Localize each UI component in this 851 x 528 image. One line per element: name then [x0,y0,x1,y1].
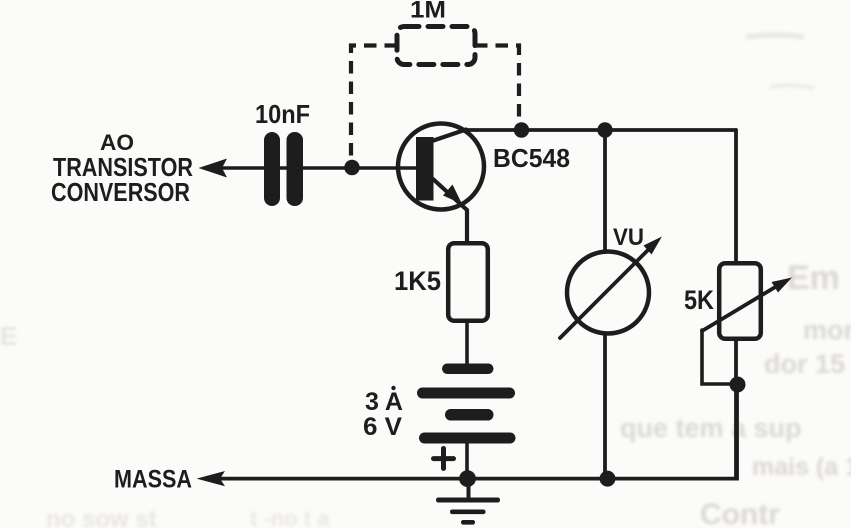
transistor Q1 collector lead [432,130,466,142]
wire: dashed right link from 1M to collector rail [475,46,519,125]
battery B1 plate 4 (long) [419,433,516,444]
wire: VU to bottom rail [603,333,607,478]
node A: base junction [344,160,359,175]
svg-text:Contr: Contr [700,498,780,528]
wire: 1K5 to battery [465,321,469,364]
wire: wiper jog to bottom terminal [702,330,736,384]
node F: pot bottom junction [730,377,746,393]
battery B1 plate 1 (short) [442,364,494,375]
svg-text:1M: 1M [410,0,446,24]
potentiometer R3 5K (body) [719,263,761,339]
wire: pot bottom to rail [734,339,738,478]
svg-text:10nF: 10nF [255,99,310,129]
node E: VU bottom junction [600,471,616,487]
svg-text:MASSA: MASSA [114,466,192,494]
transistor Q1 base bar [416,137,434,201]
ground stub [467,478,471,497]
meter M1 needle line [560,248,650,338]
transistor Q1 emitter lead [433,179,467,243]
svg-text:Em: Em [787,259,840,297]
wire: VU branch down from rail [603,130,607,252]
arrow input (to AO TRANSISTOR CONVERSOR) [199,159,228,178]
resistor R1 1M (dashed outline) [397,27,475,65]
svg-text:E: E [0,321,17,351]
meter M1 VU (body circle) [567,252,649,334]
battery B1 plate 3 (short) [445,409,494,421]
capacitor C1 10nF (right plate) [287,132,304,206]
ground bar 2 [450,510,486,515]
meter M1 needle arrow [644,237,663,255]
wire: collector rail (top) [462,128,736,132]
wire: bottom rail (MASSA) [219,384,737,479]
svg-text:6 V: 6 V [363,413,402,441]
battery B1 plate 2 (long) [417,388,515,399]
node C: VU branch junction on rail [597,122,612,137]
svg-text:t -no t a: t -no t a [250,506,330,528]
node D: battery/ground junction [459,470,476,487]
svg-text:1K5: 1K5 [394,266,441,296]
node B: 1M feedback junction on rail [514,122,529,137]
resistor R2 1K5 [448,243,488,321]
svg-text:mor: mor [803,315,851,345]
capacitor C1 10nF (left plate) [264,132,280,206]
wire: base rail from input arrow to transistor base [221,166,417,170]
potentiometer R3 wiper line [702,286,777,331]
svg-text:BC548: BC548 [493,143,570,173]
svg-text:no sow st: no sow st [46,506,157,528]
wire: dashed left link from 1M to base node [351,46,397,164]
label 3A dot [391,386,395,390]
wire: battery to ground node [465,443,469,478]
label AO TRANSISTOR CONVERSOR [51,130,193,207]
svg-text:dor 15 7: dor 15 7 [764,349,851,379]
label + polarity [434,449,454,469]
ground bar 3 [461,520,475,525]
transistor Q1 emitter arrow [443,185,462,205]
potentiometer R3 wiper arrow [772,278,793,293]
svg-text:5K: 5K [684,285,714,315]
transistor Q1 BC548 (body circle) [398,124,484,210]
svg-text:CONVERSOR: CONVERSOR [51,177,190,207]
wire: right branch rail down to pot [734,130,738,263]
arrow MASSA (points left) [197,471,226,486]
ground bar 1 [436,498,500,503]
svg-text:que tem a sup: que tem a sup [620,413,802,443]
svg-text:VU: VU [613,224,644,251]
svg-text:3 A: 3 A [365,388,403,416]
svg-text:mais (a 1 m: mais (a 1 m [752,453,851,481]
